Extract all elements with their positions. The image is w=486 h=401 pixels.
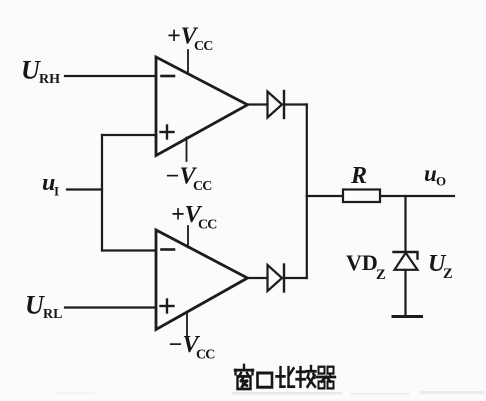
label VD_Z — [346, 250, 386, 283]
U2 inverting input - sign — [162, 248, 175, 251]
svg-text:U: U — [21, 56, 41, 85]
wire VD1 to rail — [284, 103, 307, 105]
wire to U1 + input — [102, 134, 156, 136]
U2 noninverting input + sign — [161, 300, 174, 313]
wire vertical u_I bus — [101, 135, 103, 251]
label u_O — [424, 161, 446, 189]
char 较 — [297, 366, 316, 387]
char 口 — [258, 373, 273, 387]
svg-text:R: R — [350, 163, 367, 189]
label U_Z — [428, 251, 453, 282]
svg-text:CC: CC — [194, 39, 213, 54]
svg-text:VD: VD — [346, 250, 378, 275]
zener diode VDZ — [394, 252, 418, 270]
svg-text:Z: Z — [376, 267, 386, 283]
wire branch to zener — [404, 196, 406, 252]
label U_RL — [25, 291, 62, 323]
label u_I — [42, 170, 59, 199]
wire U_RH input — [65, 75, 156, 77]
svg-text:Z: Z — [443, 266, 453, 282]
label +Vcc (U1) — [167, 24, 213, 55]
wire u_I input — [67, 188, 102, 190]
op-amp U2 — [156, 230, 248, 330]
faint scan smudge under caption — [55, 391, 484, 395]
svg-text:I: I — [54, 184, 59, 199]
svg-text:U: U — [25, 291, 45, 320]
caption 窗口比较器 (hand drawn) — [235, 365, 335, 389]
wire U2 output to diode VD2 — [248, 277, 268, 279]
wire VD2 to rail — [284, 277, 307, 279]
svg-text:CC: CC — [196, 348, 215, 363]
diode VD1 — [268, 91, 285, 118]
ground — [393, 315, 422, 318]
U2 +Vcc supply tick — [187, 226, 189, 248]
char 窗 — [235, 365, 253, 389]
label U_RH — [21, 56, 60, 88]
label R — [350, 163, 367, 189]
U1 -Vcc supply tick — [186, 138, 188, 162]
char 比 — [277, 367, 295, 386]
char 器 — [317, 367, 335, 389]
svg-text:RH: RH — [39, 72, 60, 87]
label -Vcc (U1) — [165, 164, 212, 195]
U1 inverting input - sign — [162, 75, 175, 78]
wire U_RL input — [65, 306, 156, 308]
svg-text:CC: CC — [198, 218, 217, 233]
diode VD2 — [268, 265, 285, 292]
resistor R — [343, 190, 380, 203]
U1 +Vcc supply tick — [187, 50, 189, 74]
svg-text:O: O — [436, 174, 446, 189]
label -Vcc (U2) — [168, 332, 215, 363]
wire zener to ground — [404, 270, 406, 317]
U2 -Vcc supply tick — [186, 312, 188, 336]
label +Vcc (U2) — [171, 202, 217, 233]
svg-text:RL: RL — [43, 307, 62, 322]
wire output line — [307, 195, 454, 197]
wire U1 output to diode VD1 — [248, 103, 268, 105]
U1 noninverting input + sign — [161, 126, 174, 139]
wire common rail — [306, 105, 308, 279]
op-amp U1 — [156, 57, 248, 156]
wire to U2 - input — [102, 249, 156, 251]
svg-text:CC: CC — [193, 179, 212, 194]
